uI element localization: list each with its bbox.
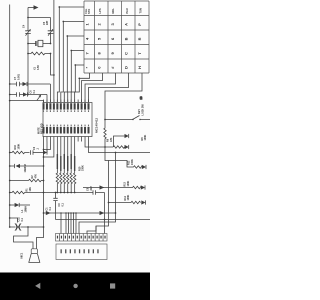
node: rail junction R2 [9,180,11,182]
capacitor C4 trimmer [25,29,31,36]
svg-text:.022: .022 [90,186,93,191]
node: rail junction C6 [9,94,11,96]
connector TB1 body [56,244,107,260]
svg-text:100K: 100K [127,195,130,201]
wire: column output to right edge [89,142,151,153]
wire: C8 line into connector pin [104,220,106,234]
svg-text:PAU: PAU [125,8,129,13]
arrow output 5 [141,200,145,204]
resistor R8 [113,146,125,148]
svg-text:330K: 330K [82,165,85,171]
capacitor C7 [17,82,20,86]
capacitor C6 [17,92,20,96]
svg-text:1N4002: 1N4002 [24,163,27,172]
capacitor C2 [31,150,34,154]
speaker MIC1 [31,249,37,254]
wire: OSC1 vertical line upper segment [27,8,29,31]
node: junction pin line / R2 [43,180,45,182]
keypad switch matrix grid [84,1,149,73]
wire: C8 to output wire [104,193,106,220]
svg-text:TON: TON [139,8,143,14]
node: ringer junction [27,226,29,228]
wire: C5 branch vertical upper lead [50,18,52,31]
wire: C7 branch [10,83,51,85]
node: crystal right junction [50,43,52,45]
svg-text:100K: 100K [131,159,134,165]
wire: stub to off-page arrow at top [28,7,34,9]
wire: left supply rail [9,5,11,228]
wire: horizontal to C5 branch [28,17,51,19]
wire: OSC1 vertical lower segment [27,33,29,94]
svg-text:R: R [137,37,142,40]
node: R11 right junction [50,53,52,55]
wire: L1 lead [10,204,15,206]
svg-text:MIC1: MIC1 [21,252,24,258]
resistor R2 [29,179,44,182]
IC1 top pin name labels [43,103,90,109]
wire: C6 branch [10,94,47,96]
arrow output 4 [141,185,145,189]
wire: fan stub pin17 [44,142,51,150]
wire: crystal left lead [28,43,36,45]
wire: corner up into IC bottom pin 16 [46,142,48,153]
svg-text:1B: 1B [140,96,143,99]
keypad header labels [84,8,143,14]
capacitor C9 [55,192,57,194]
wire: R9 line continues down with jog [96,147,109,234]
node: junction pulse wire [43,212,45,214]
wire: after D5 [19,204,30,206]
svg-text:3.58: 3.58 [37,65,40,70]
diode D4 series pointing right [23,92,28,96]
switch S1 key lock [105,116,150,120]
node: junction pin line / D1 [43,165,45,167]
node: R11 left junction [27,53,29,55]
wire: ringer line with series capacitor [10,226,44,228]
diode D5 pointing right [15,203,20,207]
resistor R9 [104,120,106,148]
IC1 top pin stubs [44,100,89,103]
wire+resistor R12 mute output [109,161,144,169]
resistor R1 [10,191,44,194]
wire: row output from IC pin 27 [85,142,113,148]
node: switch line junction [104,119,106,121]
node: rail bottom junction [9,226,11,228]
resistor R11 [28,52,51,55]
svg-text:STO: STO [87,9,91,14]
wire: riser to IC pin 3 [49,84,51,103]
wire: pin15 long line down [37,142,44,249]
svg-text:100K: 100K [144,135,147,141]
node: rail junction V+ [9,100,11,102]
svg-text:10MH: 10MH [24,206,27,213]
svg-text:D: D [124,66,129,69]
keypad row wires to bus [59,7,84,65]
svg-text:10K: 10K [29,187,32,192]
wire: C5 lower lead [50,33,52,43]
svg-text:RES VDD: RES VDD [40,123,43,134]
resistor bank R3-R7 [56,142,76,193]
wires: connector feeds [61,213,76,234]
wire+resistor R13 hold output with direction arrow [83,186,142,188]
navigation bar [0,273,150,300]
svg-text:0.001: 0.001 [17,73,20,80]
node: hold junction [115,187,117,189]
diode D1 pointing left [16,164,21,168]
wire: D1 lead [10,165,15,167]
node: rail junction spark gap [9,217,11,219]
svg-text:A: A [124,23,129,26]
node: feed line top junction [115,152,117,154]
wire: z-feed into connector [87,226,96,234]
svg-text:P: P [137,23,142,26]
wire: to resistor bank rail [44,192,93,194]
node: pulse junction [108,202,110,204]
node: junction pin line / R1 [43,192,45,194]
keypad key glyphs [85,23,143,70]
arrow output 1 [125,134,129,138]
svg-text:100K: 100K [127,181,130,187]
off-page arrow top-left pointing right [34,5,39,10]
label TO TELEPHONE LINE [61,249,99,253]
IC1 dialer chip body [43,103,92,137]
svg-text:H: H [137,66,142,69]
svg-text:RDL: RDL [111,8,115,14]
wire+resistor R14 pulse output [109,201,141,203]
node: rail junction R10 [9,152,11,154]
diode D2 pointing right [43,150,47,154]
wire: to spark gap Z1 [10,218,18,223]
keypad column staircase wires [79,73,143,120]
node: junction on OSC1 line [27,17,29,19]
svg-text:47K: 47K [34,174,37,179]
arrow output 2 [125,145,129,149]
node: rail junction C7 [9,83,11,85]
capacitor C5 trimmer [48,29,54,36]
capacitor C8 [92,190,105,194]
connector TB1 pin strip [56,234,108,242]
node: rail junction L1 [9,204,11,206]
wire: D1 to pin line [20,165,44,167]
wire: riser to arrow 1 [114,136,125,147]
wire: R2 lead [10,180,29,182]
wire: OSC2 branch down joining through line [51,54,54,76]
power arrow V+ [37,97,40,100]
wire: V+ wire to IC pin 1 [10,101,44,103]
wire: vertical feed line [79,153,116,234]
IC1 top pin numbers [43,110,89,112]
IC1 bottom pin name labels [43,127,90,134]
wire: zig route to speaker left lead [14,227,34,249]
bus vertical wires into IC top pins [57,7,79,103]
wire: output line to right edge [56,219,151,221]
svg-text:MC145412: MC145412 [94,118,98,133]
labels R3-R7 100K [57,154,76,171]
svg-text:LPS: LPS [98,8,102,13]
IC1 bottom pin numbers [43,125,89,127]
wire: crystal right lead [43,43,51,45]
capacitor C11 with cross marks [15,223,21,230]
wire: through line from top edge to IC pin 4 [53,0,55,103]
resistor R10 [10,151,30,154]
node: rail junction R1 [9,192,11,194]
arrow output 3 [142,165,146,169]
wire: C2 to D2 [33,152,43,154]
connector pin numbers [57,236,106,239]
node: rail junction D1 [9,165,11,167]
crystal X1 [36,41,37,46]
node: ringer to pin line [43,226,45,228]
wire: fan stub pin18 [44,142,54,158]
diode D3 series pointing right [23,82,28,86]
node: crystal left junction [27,43,29,45]
svg-text:C: C [124,52,129,55]
svg-text:LOCK SW: LOCK SW [142,103,145,115]
IC1 bottom pin stubs [44,137,89,142]
svg-text:22P: 22P [46,20,49,25]
svg-text:100K: 100K [18,144,21,150]
svg-text:47K: 47K [110,137,113,142]
wire: pulse line with direction arrows [44,212,116,214]
wire: riser to IC pin 2 [46,95,48,103]
svg-text:B: B [124,37,129,40]
